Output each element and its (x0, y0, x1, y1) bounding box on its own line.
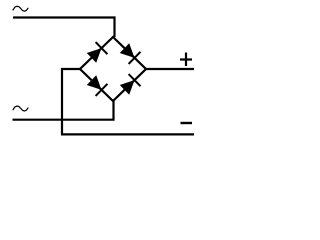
AC source symbol ~ (top input) (13, 6, 28, 11)
diode D1 (left node -> top node) (86, 42, 108, 64)
diode D2 (top node -> right node) (119, 42, 141, 64)
wire: plus output line (146, 68, 194, 70)
AC source symbol ~ (bottom input) (13, 106, 28, 111)
bridge diamond (diode ring) (80, 37, 146, 101)
wire: left node stub (62, 69, 80, 134)
wire: top AC input to bridge top node (13, 18, 115, 38)
wire: minus output line (61, 133, 194, 135)
diode D3 (left node -> bottom node) (86, 74, 108, 96)
label: - (negative DC output) (181, 122, 193, 124)
wire: bottom AC input to bridge bottom node (13, 101, 114, 120)
label: + (positive DC output) (180, 53, 192, 67)
diode D4 (bottom node -> right node) (119, 74, 141, 96)
